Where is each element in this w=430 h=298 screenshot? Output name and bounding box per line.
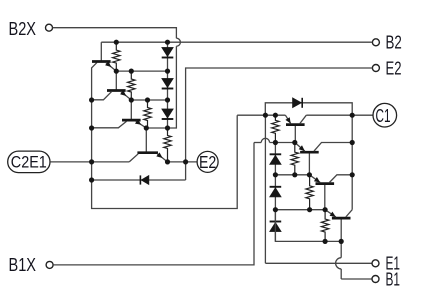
wire node1 xyxy=(116,70,167,72)
resistor R1 xyxy=(113,42,120,71)
terminal B1 xyxy=(372,276,379,283)
wire E1 out xyxy=(265,262,371,264)
resistor R3 xyxy=(144,100,151,128)
wire C2E1 to collector bus xyxy=(50,161,129,163)
junction bus Q3c xyxy=(89,125,94,130)
resistor R2 xyxy=(128,71,135,100)
resistor R8 xyxy=(321,210,328,242)
transistor Q3 xyxy=(130,100,132,120)
junction nodeC D6-D7 xyxy=(273,207,278,212)
junction bus D4 xyxy=(89,177,94,182)
resistor R7 xyxy=(306,175,313,210)
wire emitter rail E1 xyxy=(237,114,285,116)
junction nodeB D5-D6 xyxy=(273,172,278,177)
junction E1 rail riser xyxy=(263,113,268,118)
node E2 pad xyxy=(197,151,218,172)
diode D7 xyxy=(274,210,276,242)
transistor Q1 xyxy=(100,42,102,61)
wire nodeA xyxy=(254,142,261,144)
svg-text:C2E1: C2E1 xyxy=(11,153,47,172)
junction bus Q6c xyxy=(350,140,355,145)
terminal B2X xyxy=(46,24,53,31)
svg-text:E2: E2 xyxy=(199,152,216,172)
transistor Q4 xyxy=(145,128,147,153)
junction nodeB Q6b xyxy=(307,172,312,177)
terminal B1X xyxy=(46,261,53,268)
wire collector bus TR1 xyxy=(351,115,353,210)
wire emitter rail E2 xyxy=(168,161,198,163)
junction E1 rail R5 xyxy=(273,113,278,118)
junction base rail D1 xyxy=(165,40,170,45)
svg-text:B1X: B1X xyxy=(9,255,37,275)
node C1 pad xyxy=(373,103,397,127)
junction node2 D2-D3 xyxy=(165,97,170,102)
svg-text:B2: B2 xyxy=(386,33,402,53)
junction nodeA Q5b xyxy=(292,140,297,145)
junction node3 D3-R4-B2X xyxy=(165,125,170,130)
junction nodeA R5-D5-B1X xyxy=(273,140,278,145)
junction bus Q7c xyxy=(350,172,355,177)
wire nodeB xyxy=(275,174,309,176)
diode D6 xyxy=(274,175,276,210)
transistor Q8 xyxy=(340,218,342,241)
wire C1 rail xyxy=(306,114,373,116)
resistor R4 xyxy=(164,128,171,162)
diode D1 xyxy=(167,42,169,71)
diode D4 freewheel TR2 xyxy=(92,179,186,181)
svg-text:B1: B1 xyxy=(386,269,401,289)
junction node2 R3 xyxy=(145,97,150,102)
junction node1 R2 xyxy=(129,69,134,74)
transistor Q7 xyxy=(324,184,326,210)
junction C1 line D8 xyxy=(350,113,355,118)
wire base rail B2 xyxy=(101,41,372,43)
node C2E1 pad xyxy=(8,151,50,173)
wire B1 riser xyxy=(340,241,342,257)
junction nodeC R7 xyxy=(307,207,312,212)
terminal E1 xyxy=(372,260,379,267)
junction node1 D1-D2 xyxy=(165,69,170,74)
wire B1X to nodeA xyxy=(53,143,254,265)
svg-text:E2: E2 xyxy=(386,58,402,78)
diode D5 xyxy=(274,143,276,175)
wire base rail B1 xyxy=(275,236,341,241)
resistor R6 xyxy=(291,143,298,175)
resistor R5 xyxy=(272,115,279,142)
junction bus C2E1 xyxy=(89,159,94,164)
junction node2 Q2e xyxy=(129,97,134,102)
junction B1 rail Q8b xyxy=(339,239,344,244)
junction bus Q2c xyxy=(89,97,94,102)
junction B1 rail R8 xyxy=(323,239,328,244)
transistor Q5 xyxy=(294,125,296,143)
wire node3 xyxy=(146,127,167,129)
wire collector bus xyxy=(92,63,238,209)
svg-text:B2X: B2X xyxy=(9,19,37,39)
junction nodeC Q7b xyxy=(323,207,328,212)
svg-text:C1: C1 xyxy=(376,106,391,126)
transistor Q2 xyxy=(115,71,117,90)
wire E2 terminal link xyxy=(186,68,373,162)
junction E2 rail Q4e xyxy=(165,159,170,164)
terminal B2 xyxy=(372,39,379,46)
terminal E2 xyxy=(372,65,379,72)
junction node1 Q1e xyxy=(114,69,119,74)
diode D2 xyxy=(167,71,169,100)
wire E riser xyxy=(264,115,266,263)
junction base rail R1 xyxy=(114,40,119,45)
diode D8 freewheel TR1 xyxy=(265,103,352,115)
wire B2X to node3 xyxy=(53,28,177,39)
junction node3 Q3e xyxy=(144,125,149,130)
wire node2 xyxy=(131,99,167,101)
transistor Q6 xyxy=(308,152,310,175)
junction nodeB R6 xyxy=(292,172,297,177)
junction E2 rail link xyxy=(183,159,188,164)
wire nodeC xyxy=(275,209,325,211)
diode D3 xyxy=(167,100,169,128)
